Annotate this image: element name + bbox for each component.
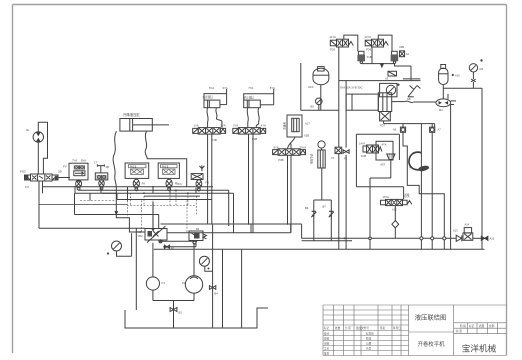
svg-text:A6: A6 — [393, 128, 397, 132]
svg-text:YB2: YB2 — [138, 234, 144, 238]
bus drop arrow — [380, 64, 383, 67]
power unit box top — [339, 80, 421, 82]
gauge panel PG5 — [380, 83, 397, 96]
bank2 down wires — [249, 134, 254, 233]
pump circle P2 — [185, 243, 202, 301]
right small cells — [454, 323, 506, 334]
accumulator ACC1 — [313, 67, 329, 111]
hose C3 left — [247, 108, 248, 128]
svg-text:年月日: 年月日 — [393, 326, 401, 330]
svg-text:9L: 9L — [26, 128, 30, 132]
valve DV4 — [381, 199, 412, 205]
svg-text:标记: 标记 — [324, 326, 330, 330]
tank feed vertical — [135, 228, 137, 310]
label PG1 — [107, 252, 109, 254]
short header verticals — [43, 181, 197, 201]
svg-text:12YA: 12YA — [365, 35, 372, 39]
svg-text:FD8: FD8 — [361, 154, 366, 158]
jog line — [116, 215, 145, 233]
svg-text:A13: A13 — [453, 229, 458, 233]
hose C2 right — [216, 108, 222, 128]
gauge PG4 — [316, 98, 323, 110]
mesh dashed y205 — [127, 205, 196, 207]
svg-text:3YA: 3YA — [233, 123, 238, 127]
bank3 down wires — [288, 155, 292, 233]
feed drop left — [338, 47, 340, 147]
long return line left — [39, 227, 145, 229]
svg-text:FC: FC — [178, 182, 182, 186]
svg-text:P3B: P3B — [278, 158, 283, 162]
suction stem — [173, 301, 175, 329]
svg-text:P1: P1 — [162, 281, 166, 285]
flow control FC1 — [287, 115, 302, 137]
pump unit A (variable) — [145, 226, 167, 243]
svg-text:14YA: 14YA — [359, 141, 365, 145]
suction valve — [170, 308, 177, 312]
feed drop sv2 — [371, 47, 373, 64]
hose cylinder left — [113, 131, 116, 205]
svg-text:P2: P2 — [182, 281, 186, 285]
valve below block — [380, 112, 391, 121]
hose C3 right — [256, 108, 259, 128]
svg-text:P1B: P1B — [212, 138, 217, 142]
valve box B1 — [125, 163, 149, 191]
main header line — [43, 186, 214, 188]
arrow to line — [115, 205, 117, 215]
hose C2 left — [207, 108, 208, 128]
check valve CVb — [329, 211, 334, 241]
svg-text:4YA: 4YA — [261, 123, 266, 127]
svg-text:B4: B4 — [215, 292, 219, 296]
svg-text:处数: 处数 — [335, 326, 341, 330]
svg-text:液压联结图: 液压联结图 — [415, 313, 446, 322]
wire valve left drop — [38, 181, 40, 228]
svg-text:共 张: 共 张 — [456, 329, 462, 333]
svg-text:审核: 审核 — [324, 341, 330, 345]
svg-text:SB: SB — [407, 97, 411, 101]
svg-text:7YA: 7YA — [248, 86, 253, 90]
svg-text:签名: 签名 — [380, 326, 386, 330]
svg-text:8YA: 8YA — [270, 86, 275, 90]
drain valve — [209, 286, 215, 290]
pilot drop to pump A — [152, 202, 154, 231]
valve FD3 (3-pos directional) — [25, 174, 59, 181]
svg-text:16YA: 16YA — [403, 195, 410, 199]
second drain vertical — [222, 249, 224, 328]
main cylinder block — [346, 93, 405, 112]
svg-text:设计: 设计 — [324, 331, 330, 335]
relief bus — [361, 64, 411, 81]
valve block A2 — [69, 163, 88, 190]
svg-text:YB: YB — [138, 230, 142, 234]
label ACC2 — [452, 74, 454, 76]
wire motor loop — [38, 122, 47, 174]
svg-text:A5T: A5T — [380, 163, 385, 167]
svg-text:A7: A7 — [438, 128, 442, 132]
svg-text:标准化: 标准化 — [366, 331, 374, 335]
title block texts — [324, 313, 497, 356]
solid pilot line — [102, 193, 212, 199]
svg-text:PA2 B: PA2 B — [130, 166, 137, 169]
check valve square CS1 — [400, 124, 405, 133]
mesh nodes — [136, 186, 213, 194]
svg-text:批准: 批准 — [324, 351, 330, 355]
junction dots — [420, 237, 423, 240]
wire TV1 down — [321, 168, 323, 200]
svg-text:宝洋机械: 宝洋机械 — [462, 343, 497, 354]
svg-text:A10: A10 — [455, 74, 460, 78]
svg-text:X1B: X1B — [367, 55, 372, 59]
svg-text:A2: A2 — [406, 52, 410, 56]
svg-text:FV: FV — [25, 185, 29, 189]
svg-text:X2B: X2B — [304, 134, 309, 138]
throttle tall TV1 — [318, 141, 325, 168]
svg-text:2B: 2B — [58, 170, 62, 174]
pilot valve in VA1 — [363, 145, 382, 153]
bracket SV1 — [344, 35, 358, 51]
mesh dashed verticals — [131, 187, 197, 215]
svg-text:共张: 共张 — [366, 346, 372, 350]
svg-text:9YA 10A 3YB 30C: 9YA 10A 3YB 30C — [340, 86, 363, 90]
svg-text:B1: B1 — [196, 227, 200, 231]
shutoff SOV1 — [343, 81, 349, 250]
svg-text:4YA: 4YA — [382, 143, 387, 147]
title block — [323, 305, 506, 356]
hose cylinder right — [145, 131, 187, 187]
double top line — [403, 78, 420, 80]
svg-text:工艺: 工艺 — [324, 346, 330, 350]
svg-text:B6: B6 — [305, 206, 309, 210]
svg-text:A1T: A1T — [305, 122, 310, 126]
label PG5 dot — [397, 84, 399, 86]
wire pumps manifold — [161, 241, 197, 246]
svg-text:ACC: ACC — [308, 85, 314, 89]
svg-text:日期: 日期 — [366, 341, 372, 345]
solenoid valve SV2 — [365, 39, 388, 47]
pressure line drop left — [300, 63, 302, 110]
svg-text:X2B: X2B — [399, 45, 404, 49]
check valve CVa — [311, 211, 316, 241]
mesh line y190 — [79, 190, 229, 226]
check block line — [384, 121, 435, 127]
svg-text:FV: FV — [63, 165, 67, 169]
mesh y215 extension — [116, 215, 158, 229]
suction manifold — [153, 300, 194, 302]
valve box B3 — [191, 165, 204, 191]
strainer blob — [418, 165, 430, 172]
hose wavy to pump — [405, 101, 414, 102]
valve bank V1 — [193, 128, 226, 135]
svg-text:B5: B5 — [311, 105, 315, 109]
valve assembly box VA1 — [356, 134, 399, 187]
svg-text:校核: 校核 — [324, 336, 330, 340]
VA1 drain step — [356, 162, 403, 249]
svg-text:更改文件号: 更改文件号 — [356, 326, 369, 330]
relief valve RV3 — [463, 228, 481, 241]
svg-text:8YA: 8YA — [81, 159, 86, 163]
tank outline — [125, 308, 268, 328]
svg-text:升降液压缸: 升降液压缸 — [123, 112, 141, 117]
valve bank V3 — [273, 149, 306, 156]
svg-text:A14: A14 — [465, 222, 470, 226]
small box valve BV1 — [335, 147, 342, 249]
svg-text:M2: M2 — [480, 67, 484, 71]
relief valve RV2 — [391, 51, 399, 63]
dashed vertical pilots — [128, 201, 188, 234]
label PG3 — [480, 59, 482, 61]
svg-text:A3: A3 — [385, 77, 389, 81]
svg-text:15YA: 15YA — [383, 195, 390, 199]
svg-text:1YA: 1YA — [194, 123, 199, 127]
cylinder C3 — [244, 89, 274, 108]
cylinder C1 lift — [120, 119, 169, 132]
svg-text:B7: B7 — [323, 205, 327, 209]
shutoff SOV2 — [481, 236, 488, 240]
left table vertical rules — [334, 305, 402, 356]
svg-text:F2: F2 — [344, 157, 348, 161]
svg-text:2YA: 2YA — [221, 123, 226, 127]
left table horizontal rules — [323, 310, 409, 351]
paired mid lines — [161, 224, 302, 233]
pump circle P1 — [146, 243, 159, 301]
mid drop to return — [301, 224, 303, 238]
bypass valve BP1 — [388, 71, 397, 76]
svg-text:质量: 质量 — [479, 324, 485, 328]
check valve CV5 — [456, 235, 462, 241]
middle cell divider — [409, 331, 454, 333]
cylinder C2 — [204, 89, 227, 108]
right main vertical — [481, 88, 483, 249]
pilot drop line — [75, 193, 117, 214]
wire motor to valve — [37, 142, 39, 174]
svg-text:标记: 标记 — [469, 324, 475, 328]
svg-text:夹送辊缸: 夹送辊缸 — [203, 95, 214, 99]
svg-text:5YA: 5YA — [209, 86, 214, 90]
svg-text:M1: M1 — [439, 108, 443, 112]
title block outer — [323, 305, 506, 356]
svg-text:矫正辊缸: 矫正辊缸 — [244, 96, 255, 100]
svg-text:1T: 1T — [94, 161, 98, 165]
wire valve to block A2 — [58, 177, 70, 179]
pump main PM1 — [414, 94, 456, 107]
drain line right — [212, 224, 214, 328]
junction nodes band — [74, 186, 345, 243]
svg-text:7YA: 7YA — [72, 159, 77, 163]
svg-text:11YA: 11YA — [330, 35, 337, 39]
accumulator ACC2 — [439, 65, 448, 99]
svg-text:A15: A15 — [490, 237, 495, 241]
stepped drain from CS1 — [403, 132, 444, 249]
svg-text:FD3: FD3 — [20, 170, 26, 174]
svg-text:FD6: FD6 — [366, 48, 372, 52]
bracket SV2 — [378, 35, 392, 51]
main schematic — [20, 35, 495, 328]
hose FC1 down — [288, 137, 296, 149]
svg-text:A8: A8 — [409, 166, 413, 170]
tank left box vertical — [241, 249, 243, 327]
gauge PG2 — [199, 256, 212, 271]
svg-text:2B: 2B — [106, 165, 110, 169]
svg-text:FD5: FD5 — [330, 48, 336, 52]
dashed pilot line — [80, 200, 117, 202]
svg-text:A12: A12 — [392, 208, 397, 212]
label PG2 — [208, 268, 210, 270]
relief valve RV1 — [357, 51, 365, 63]
svg-text:单向节流: 单向节流 — [310, 153, 314, 164]
valve block A3 — [95, 164, 108, 189]
drain CS2 — [431, 132, 433, 249]
valve box B2 — [158, 163, 179, 191]
pump right vertical — [450, 105, 452, 250]
aux valve AX1 — [400, 51, 405, 57]
tank header line — [154, 248, 485, 250]
svg-text:阶段: 阶段 — [366, 336, 372, 340]
suction hose curve — [409, 152, 422, 170]
svg-text:6YA: 6YA — [223, 86, 228, 90]
gauge PG1 — [112, 233, 132, 256]
hand pump lever — [408, 86, 421, 97]
valve bank V2 — [233, 128, 266, 135]
pilot line y204 — [39, 204, 127, 206]
svg-text:阶 段: 阶 段 — [460, 324, 466, 328]
check pair bracket — [314, 200, 332, 211]
main return line — [302, 237, 457, 239]
svg-text:开卷校平机: 开卷校平机 — [418, 340, 446, 348]
svg-text:调速阀: 调速阀 — [283, 122, 287, 130]
mesh line y196 — [144, 193, 234, 233]
svg-text:FA: FA — [142, 182, 146, 186]
svg-text:FD7: FD7 — [380, 124, 385, 128]
check valve square CS2 — [430, 124, 435, 133]
funnel filter — [387, 154, 395, 162]
diamond node — [392, 206, 399, 239]
pressure test line — [301, 109, 339, 111]
svg-text:F1: F1 — [332, 156, 336, 160]
svg-text:PA3 B: PA3 B — [162, 166, 169, 169]
motor M1 — [33, 132, 43, 142]
accumulator bus — [443, 87, 482, 89]
second header line — [75, 192, 212, 194]
gauge PG3 — [469, 64, 477, 89]
lower return segment — [302, 240, 352, 242]
solenoid valve SV1 — [330, 39, 353, 47]
mid vertical through curve — [420, 124, 422, 250]
pump unit B — [189, 231, 207, 244]
svg-text:比例: 比例 — [489, 324, 495, 328]
svg-text:分 区: 分 区 — [345, 326, 351, 330]
bank1 down wires — [208, 134, 212, 224]
svg-text:B3: B3 — [179, 311, 183, 315]
small throttle on lower line — [164, 245, 169, 248]
